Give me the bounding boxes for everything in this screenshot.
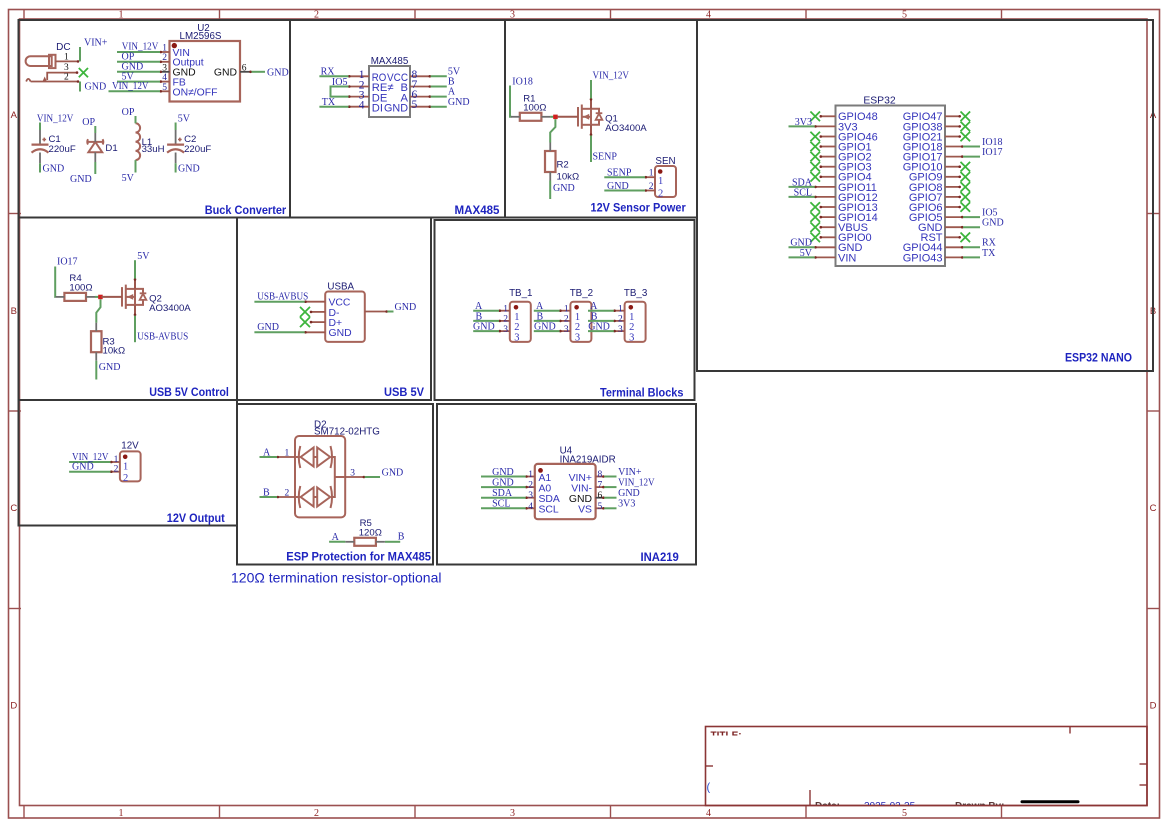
wire RX to ESP32 GPIO44 [963,246,980,248]
frame row ticks right [1147,213,1160,215]
svg-text:3: 3 [528,491,533,501]
wire IO17 to ESP32 GPIO17 [963,156,980,158]
no-connect X at ESP32 GPIO10 [961,162,971,172]
svg-text:4: 4 [706,808,711,819]
wire USBA shield to GND [387,311,393,313]
svg-text:B: B [263,487,270,498]
title block right notch lower [1140,784,1148,786]
svg-text:AO3400A: AO3400A [605,123,647,134]
svg-text:4: 4 [162,73,167,83]
svg-text:TB_1: TB_1 [509,288,532,299]
resistor R5 120ohm [354,538,376,546]
D2 internal connection to pin 3 [331,457,345,497]
svg-text:TB_3: TB_3 [624,288,648,299]
svg-text:R2: R2 [557,160,569,171]
inductor L1 33uH [136,123,141,160]
wire GND to ESP32 GND [963,226,980,228]
ESP32 left pin GPIO11 stub [815,186,836,188]
wire IO5 bracket to pins 2 and 3 [331,87,349,97]
wire U2 pin2 OP [117,61,160,63]
title block TITLE label clipped [711,731,742,742]
svg-text:SEN: SEN [655,156,675,167]
svg-text:4: 4 [359,100,365,112]
svg-text:3: 3 [564,325,569,335]
wire Q2 source to USB-AVBUS [134,316,136,343]
svg-text:SENP: SENP [593,152,618,163]
svg-text:2: 2 [618,315,623,325]
wire U2 pin3 GND [117,71,160,73]
svg-text:SDA: SDA [492,488,513,499]
ESP32 left pin GPIO4 stub [820,176,836,178]
ESP32 left pin GPIO48 stub [820,115,836,117]
svg-text:SCL: SCL [539,505,559,516]
connector TB_1 body [510,302,531,342]
svg-text:GND: GND [448,97,470,108]
svg-text:GND: GND [607,181,629,192]
C2 pin bottom [175,153,177,164]
svg-text:1: 1 [564,304,569,314]
U2 pin 6 stub GND [240,71,252,73]
no-connect X at ESP32 GPIO7 [961,192,971,202]
svg-text:3: 3 [350,468,355,478]
svg-text:7: 7 [598,481,603,491]
svg-text:2: 2 [564,315,569,325]
12V pin 1 stub [111,461,120,463]
svg-text:GND: GND [70,174,92,185]
svg-text:5V: 5V [178,113,191,124]
svg-text:GND: GND [982,218,1004,229]
MAX485 pin 6 stub [410,96,431,98]
svg-text:IO17: IO17 [982,147,1003,158]
svg-text:4: 4 [528,502,533,512]
svg-text:TB_2: TB_2 [570,288,593,299]
ESP32 right pin GPIO10 stub [945,166,961,168]
no-connect X at ESP32 GPIO46 [810,132,820,142]
12V pin 2 stub [111,471,120,473]
ESP32 right pin GPIO6 stub [945,206,961,208]
TVS diode D2 SM712-02HTG body [295,436,345,517]
connector 12V body [120,451,141,481]
svg-text:2: 2 [503,315,508,325]
U2 pin1 marker dot [172,43,177,48]
svg-text:GND: GND [257,322,279,333]
title block top tick [1069,727,1071,734]
svg-text:GND: GND [553,183,575,194]
no-connect X at ESP32 GPIO21 [961,132,971,142]
svg-text:USB 5V: USB 5V [384,387,424,399]
wire U4 pin6 to GND [604,497,616,499]
wire 5V to C2 [175,123,177,131]
block outline ESP Protection for MAX485 [237,404,433,565]
ESP32 left pin GND stub [815,246,836,248]
wire D2 pin3 to GND [365,476,380,478]
block outline 12V Output [19,400,238,526]
no-connect X on DC pin 3 [79,68,88,77]
wire R3 to GND [95,361,97,380]
ESP32 left pin VBUS stub [820,226,836,228]
wire B to TB_2 pin2 [534,320,560,322]
svg-text:1: 1 [649,169,654,179]
svg-text:GND: GND [214,68,237,79]
svg-text:USB-AVBUS: USB-AVBUS [137,332,188,343]
wire 3V3 to ESP32 3V3 [789,125,815,127]
no-connect X at ESP32 GPIO47 [961,112,971,122]
svg-text:Terminal Blocks: Terminal Blocks [600,388,683,400]
wire U4 pin5 to 3V3 [604,507,616,509]
svg-text:D1: D1 [105,143,117,154]
svg-text:1: 1 [114,455,119,465]
TB_2 pin 2 stub [560,320,571,322]
wire Q1 source to SENP [590,136,592,163]
svg-text:SM712-02HTG: SM712-02HTG [314,427,380,438]
svg-text:120Ω: 120Ω [359,527,382,538]
U4 pin 7 stub [596,486,605,488]
IC ESP32 chip body [836,106,946,267]
wire GND to TB_1 pin3 [473,330,499,332]
C1 pin top [39,130,41,144]
svg-text:VIN_12V: VIN_12V [618,478,655,489]
DC pin 2 sleeve contact [26,79,79,82]
svg-text:SDA: SDA [539,494,560,505]
wire A to TB_3 pin1 [588,310,614,312]
ESP32 right pin RST stub [945,236,961,238]
ESP32 right pin GPIO43 stub [945,256,963,258]
U4 pin 8 stub [596,476,605,478]
wire junction to R2 jog [550,119,555,142]
svg-text:3: 3 [162,63,167,73]
U2 pin 5 stub [160,90,170,92]
TB_1 pin1 marker dot [514,305,519,310]
wire RX to MAX485 pin1 [319,75,348,77]
svg-text:1: 1 [528,470,533,480]
wire SDA to U4 pin3 [481,497,526,499]
junction at R4 gate R3 node [98,295,103,300]
resistor R4 100ohm [64,293,86,301]
TB_2 pin 3 stub [560,330,571,332]
wire MAX485 pin5 to GND [431,106,447,108]
svg-text:5: 5 [902,808,907,819]
resistor R1 100ohm [520,113,542,121]
svg-text:C: C [10,503,17,514]
wire R4 to junction [95,296,102,298]
svg-text:100Ω: 100Ω [523,103,546,114]
svg-text:GND: GND [473,322,495,333]
svg-text:3: 3 [575,332,580,343]
svg-text:GND: GND [492,467,514,478]
connector USBA body [325,292,365,342]
wire SCL to ESP32 GPIO12 [789,196,815,198]
svg-text:GND: GND [384,102,408,114]
wire A to D2 pin1 [260,456,278,458]
svg-text:3: 3 [629,332,634,343]
no-connect X at ESP32 GPIO4 [810,172,820,182]
wire U4 pin8 to VIN+ [604,476,616,478]
svg-text:6: 6 [242,63,247,73]
svg-text:INA219: INA219 [641,552,679,564]
svg-text:B: B [11,306,17,317]
ESP32 left pin GPIO14 stub [820,216,836,218]
svg-text:2: 2 [162,53,167,63]
MAX485 pin 4 stub [349,106,370,108]
svg-text:A1: A1 [539,473,552,484]
frame row ticks left [9,213,22,215]
svg-text:220uF: 220uF [184,144,211,155]
TB_3 pin 1 stub [614,310,625,312]
ESP32 left pin GPIO13 stub [820,206,836,208]
TB_1 pin 1 stub [499,310,510,312]
block outline USB 5V [237,218,431,401]
svg-text:3: 3 [503,325,508,335]
no-connect X at ESP32 RST [961,233,971,243]
title block outline [706,727,1148,806]
ESP32 right pin GPIO21 stub [945,136,961,138]
svg-text:ON≠/OFF: ON≠/OFF [173,87,218,98]
wire IO17 vertical and corner [54,267,56,297]
svg-text:10kΩ: 10kΩ [103,346,126,357]
no-connect X at ESP32 GPIO14 [810,212,820,222]
wire C1 to GND [39,163,41,172]
svg-text:GND: GND [43,163,65,174]
wire GND to U4 pin2 [481,486,526,488]
no-connect X at ESP32 GPIO38 [961,122,971,132]
svg-text:1: 1 [162,43,167,53]
svg-text:2: 2 [314,808,319,819]
no-connect X at ESP32 GPIO8 [961,182,971,192]
svg-text:12V: 12V [121,441,139,452]
svg-text:5: 5 [902,10,907,21]
TB_1 pin 2 stub [499,320,510,322]
block outline INA219 [437,404,696,565]
junction at R1 gate R2 node [553,115,558,120]
wire U2 pin5 VIN_12V [109,90,161,92]
block outline Terminal Blocks [435,220,695,400]
svg-text:(: ( [707,782,711,794]
wire A to TB_1 pin1 [473,310,499,312]
ESP32 right pin GPIO7 stub [945,196,961,198]
MAX485 pin 3 stub [349,96,370,98]
U4 pin1 marker dot [538,468,543,473]
no-connect X at USBA D- [300,307,310,317]
TB_2 pin1 marker dot [574,305,579,310]
svg-text:VIN_12V: VIN_12V [593,71,630,82]
IC MAX485 chip body [369,66,410,117]
svg-text:2: 2 [123,473,128,484]
svg-text:3: 3 [64,63,69,73]
DC pin 3 [47,73,78,80]
wire A to R5 [329,541,345,543]
title block signature line [1022,800,1078,803]
U4 pin 4 stub [526,507,535,509]
svg-text:120Ω termination resistor-opti: 120Ω termination resistor-optional [231,570,442,586]
U2 pin 2 stub [160,61,170,63]
USBA GND pin stub [305,331,326,333]
svg-text:B: B [398,531,405,542]
svg-text:GND: GND [588,322,610,333]
svg-text:5: 5 [412,99,418,111]
wire VIN_12V to 12V pin1 [69,461,110,463]
diode D1 [87,139,103,152]
svg-text:GPIO43: GPIO43 [903,252,943,264]
svg-text:1: 1 [119,808,124,819]
svg-text:1: 1 [119,10,124,21]
MAX485 pin 5 stub [410,106,431,108]
svg-text:USB-AVBUS: USB-AVBUS [257,291,308,302]
svg-text:USBA: USBA [327,281,354,292]
MAX485 pin 1 stub [349,75,370,77]
svg-text:3: 3 [514,332,519,343]
DC pin 1 [56,60,79,62]
no-connect X at ESP32 GPIO2 [810,152,820,162]
wire GND to 12V pin2 [69,471,110,473]
wire U2 pin1 VIN_12V [117,51,160,53]
ESP32 right pin GPIO5 stub [945,216,963,218]
svg-text:1: 1 [503,304,508,314]
svg-text:1: 1 [618,304,623,314]
IC U4 INA219AIDR body [535,464,596,519]
title block left notch [706,765,714,767]
no-connect X at USBA D+ [300,317,310,327]
svg-text:OP: OP [122,107,135,118]
ESP32 left pin VIN stub [815,256,836,258]
wire SCL to U4 pin4 [481,507,526,509]
no-connect X at ESP32 GPIO6 [961,202,971,212]
svg-text:SCL: SCL [492,499,510,510]
svg-text:12V Sensor Power: 12V Sensor Power [591,203,687,215]
title block bottom divider tick [809,790,811,806]
ESP32 right pin GPIO47 stub [945,115,961,117]
wire 5V to ESP32 VIN [789,256,815,258]
D2 pin 3 stub [345,476,365,478]
SEN pin 2 stub [645,190,655,192]
svg-text:ESP32: ESP32 [863,96,896,107]
svg-text:220uF: 220uF [49,144,76,155]
ESP32 left pin GPIO1 stub [820,146,836,148]
svg-text:GND: GND [395,302,417,313]
svg-text:GND: GND [382,467,404,478]
wire GND to SEN pin2 [604,190,645,192]
svg-text:10kΩ: 10kΩ [557,172,580,183]
D1 pin top [94,133,96,142]
svg-text:12V Output: 12V Output [167,513,225,525]
svg-text:OP: OP [82,117,95,128]
svg-text:100Ω: 100Ω [69,282,92,293]
U4 pin 3 stub [526,497,535,499]
ESP32 right pin GPIO17 stub [945,156,963,158]
USBA VCC pin stub [305,301,326,303]
D2 pin 2 lead inside [295,496,300,498]
svg-text:2: 2 [649,182,654,192]
svg-text:5V: 5V [122,173,135,184]
frame column ticks bottom [23,806,25,819]
svg-text:D: D [1150,701,1157,712]
svg-text:4: 4 [706,10,711,21]
svg-text:GND: GND [329,328,352,339]
svg-text:2: 2 [64,73,69,83]
wire TX to MAX485 pin4 [319,106,348,108]
wire U2 pin4 5V [117,81,160,83]
wire C2 to GND [175,163,177,172]
capacitor C1 220uF [32,138,49,153]
svg-text:GND: GND [534,322,556,333]
wire VIN_12V to C1 [39,123,41,131]
wire SDA to ESP32 GPIO11 [789,186,815,188]
ESP32 right pin GPIO18 stub [945,146,963,148]
12V pin1 marker dot [123,455,128,460]
no-connect X at ESP32 GPIO0 [810,233,820,243]
connector TB_3 body [625,302,646,342]
svg-text:A: A [11,110,18,121]
wire IO18 to ESP32 GPIO18 [963,146,980,148]
svg-text:C: C [1150,503,1157,514]
wire U2 pin6 GND [252,71,266,73]
svg-text:8: 8 [598,470,603,480]
U2 pin 3 stub GND [160,71,170,73]
svg-text:IO17: IO17 [57,256,78,267]
USBA D- pin stub [310,311,325,313]
svg-text:2: 2 [285,488,290,498]
svg-text:5: 5 [598,502,603,512]
no-connect X at ESP32 GPIO9 [961,172,971,182]
ESP32 right pin GPIO38 stub [945,125,961,127]
svg-text:ESP32 NANO: ESP32 NANO [1065,353,1132,365]
svg-text:1: 1 [64,53,69,63]
wire GND below DC pin 2 [79,82,81,92]
svg-text:1: 1 [285,448,290,458]
U4 pin 2 stub [526,486,535,488]
block outline USB 5V Control [19,218,238,401]
op-amp U2 chip body LM2596S [170,41,241,102]
svg-text:TX: TX [322,97,336,108]
svg-text:SENP: SENP [607,168,632,179]
svg-text:VIN+: VIN+ [618,467,642,478]
svg-text:ESP Protection for MAX485: ESP Protection for MAX485 [286,551,431,563]
MAX485 pin 8 stub [410,75,431,77]
ESP32 left pin 3V3 stub [815,125,836,127]
block outline 12V Sensor Power [505,20,697,218]
transistor Q2 AO3400A [102,278,147,316]
MAX485 pin 2 stub [349,86,370,88]
wire USB-AVBUS to USBA VCC [254,301,304,303]
C2 pin top [175,130,177,144]
C1 pin bottom [39,153,41,164]
U4 pin 5 stub [596,507,605,509]
svg-text:A: A [263,447,271,458]
D2 pin 2 stub [277,496,295,498]
frame column ticks top [23,10,25,20]
resistor R3 10kohm [91,331,102,352]
svg-text:2: 2 [528,481,533,491]
wire MAX485 pin8 to 5V [431,75,447,77]
svg-text:3V3: 3V3 [618,499,635,510]
wire MAX485 pin6 to A [431,96,447,98]
no-connect X at ESP32 GPIO3 [810,162,820,172]
resistor R2 10kohm [545,151,556,172]
svg-text:1: 1 [658,176,663,187]
wire D1 to GND [94,162,96,174]
svg-text:A0: A0 [539,483,552,494]
svg-text:MAX485: MAX485 [371,56,409,67]
ESP32 right pin GND stub [945,226,963,228]
svg-text:GND: GND [72,462,94,473]
svg-text:2: 2 [658,189,663,200]
ESP32 left pin GPIO12 stub [815,196,836,198]
wire SENP to SEN pin1 [604,176,645,178]
title block right notch upper [1140,763,1148,765]
U2 pin 1 stub [160,51,170,53]
svg-text:GND: GND [618,488,640,499]
svg-text:3: 3 [618,325,623,335]
svg-text:MAX485: MAX485 [455,205,501,217]
